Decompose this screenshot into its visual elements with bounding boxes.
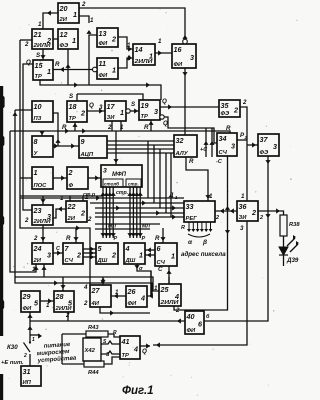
text +E pit [1,360,24,366]
wire y277 bus [15,264,159,291]
svg-text:9: 9 [81,137,85,146]
svg-text:АЦП: АЦП [80,152,94,158]
svg-text:б: б [206,313,210,320]
svg-text:R: R [144,124,149,131]
svg-text:У: У [34,151,39,157]
svg-text:СЧ: СЧ [219,150,228,156]
node label R under REG [181,225,185,231]
svg-text:8: 8 [34,137,38,146]
resistor R44 [62,357,120,367]
svg-text:R: R [189,158,194,165]
svg-text:К30: К30 [7,344,18,351]
svg-text:5: 5 [68,298,73,307]
wire MFP column line 1 [100,187,105,238]
node label ML left [108,224,116,230]
block 2 filter F [67,167,88,189]
svg-text:МЛ: МЛ [108,224,116,230]
svg-text:5: 5 [98,244,103,253]
svg-text:R: R [55,61,60,68]
svg-text:2: 2 [24,217,29,224]
node label 2 right of 33 [215,215,219,221]
svg-text:2: 2 [126,55,131,62]
resistor R43 [62,331,120,337]
node label P above 5 [114,236,118,242]
svg-text:2: 2 [76,250,81,259]
text power line3 [37,354,78,364]
text R43 [88,325,99,331]
svg-text:β: β [202,239,207,246]
svg-text:2: 2 [46,36,51,45]
wire 26 right input drop [150,271,152,296]
node label Q above 19 output [162,98,167,105]
wire REG output comb [187,222,213,232]
block 17 AND gate 3I [105,101,126,121]
wire 10 left input [15,109,32,111]
svg-text:МЛ: МЛ [142,224,150,230]
svg-text:1: 1 [127,42,131,49]
svg-text:11: 11 [99,59,106,68]
node label -C under 34 [216,159,223,165]
svg-text:26: 26 [127,287,137,296]
node label 1 at 14 input [127,42,131,49]
node label C between 24 and 7 [56,246,61,252]
svg-text:ДШ: ДШ [97,258,108,264]
wire ADC bus line 4 [107,152,174,154]
wire ML line 1 [95,223,160,225]
svg-text:2: 2 [107,124,112,131]
node label beta [202,239,207,246]
svg-text:R43: R43 [88,325,99,331]
block 19 trigger TR [139,100,160,120]
block 11 pulse shaper FI [97,58,118,79]
wire R38 to D39 [283,236,285,247]
svg-text:18: 18 [69,102,77,111]
wire 28 bottom stub [67,312,69,321]
svg-text:1: 1 [154,285,158,292]
svg-text:РЕГ: РЕГ [186,216,198,222]
wire 16 output down to 32 [182,68,187,135]
block 28 OR gate 2ILI [54,291,74,312]
node label 2 left of 21 [24,41,29,48]
node label Q right of 18 [89,102,94,109]
wire 13 to 14 input 1 [118,37,133,52]
wire R into 7 top [73,228,78,243]
wire R into 6 top [160,228,165,243]
wire mesh horizontal 3 [95,205,184,210]
node label 1 above 36 [241,193,245,200]
block 25 OR gate 2ILI [159,284,181,306]
node label Q left of 15 [26,59,31,66]
svg-text:4: 4 [174,292,179,301]
resistor R38 [280,215,300,236]
node label 2 right of 36 [259,215,263,221]
node label 3 under 36 [240,225,244,232]
wire 34 P2 output to right bus [237,139,247,141]
wire 6 to 4 line1 [145,247,155,252]
wire bus drop 3 to mesh [159,149,161,208]
svg-text:АЛУ: АЛУ [175,151,189,157]
svg-text:34: 34 [219,134,227,143]
svg-text:Q: Q [142,348,147,355]
node label 2 right of 35 [242,99,247,106]
wire 12 bottom down [65,49,70,85]
wire 36 bottom return to 41 Q [153,221,247,348]
svg-text:ИП: ИП [23,380,32,386]
wire 21 to 12 [53,38,58,40]
svg-text:3: 3 [190,53,194,62]
svg-text:Q: Q [163,120,168,127]
node label 6 right of 40 [206,313,210,320]
svg-text:1: 1 [120,124,124,131]
svg-text:1: 1 [85,194,89,201]
wire mesh horizontal 4 [95,210,184,215]
svg-text:1: 1 [72,36,76,45]
block 40 pulse shaper FI [185,311,204,334]
wire 11 to 14 input 2 [118,55,133,68]
svg-text:2: 2 [233,105,238,114]
svg-text:28: 28 [55,292,64,301]
svg-text:2И: 2И [67,216,76,222]
svg-text:12: 12 [60,30,68,39]
svg-text:23: 23 [33,206,42,215]
wire 19 Q output to 35 [160,104,219,109]
svg-text:ФИ: ФИ [23,306,33,312]
block 14 OR gate 2ILI [133,44,155,65]
wire ML line 2 [95,228,150,230]
svg-text:3: 3 [99,104,103,111]
svg-text:R: R [66,235,71,242]
svg-text:2: 2 [81,1,86,8]
wire minus C long vertical [174,156,230,310]
node label S above 15 [36,52,41,59]
node label K30 [7,344,18,351]
node label Q under 19 output [163,120,168,127]
svg-text:адрес пиксела: адрес пиксела [181,251,226,258]
svg-text:2: 2 [215,215,219,221]
wire 22 output to 23 [53,206,66,218]
wire left bus x15 [12,110,153,299]
text R44 [88,370,99,376]
svg-text:Фиг.1: Фиг.1 [122,385,154,397]
wire 7 to 5 line3 [83,254,96,259]
wire bus drop 5 to mesh [170,153,172,217]
svg-text:Р: Р [142,236,146,242]
block 22 AND gate 2I [66,201,87,222]
wire MFP row line 4 [138,187,143,238]
wire power arrow to text [30,333,42,338]
diode D39 [279,235,299,266]
svg-text:R: R [62,124,67,131]
block 18 trigger TR [67,101,87,122]
svg-text:1: 1 [112,65,116,74]
wire down into MFP top [113,131,118,165]
node label R above 34 [226,125,231,132]
wire mesh horizontal 1 [20,195,184,200]
svg-text:ПЗ: ПЗ [34,116,42,122]
wire 7 to 5 line2 [83,250,96,255]
svg-text:ФЭ: ФЭ [60,43,70,49]
svg-text:2: 2 [80,208,85,217]
block 12 delay FE [58,29,78,49]
svg-text:20: 20 [59,4,68,13]
block 5 decoder DSh [96,243,118,264]
text figure caption [122,385,154,397]
svg-text:1: 1 [38,21,42,28]
svg-text:СЧ: СЧ [157,260,166,266]
inverter circle on 16 top [183,39,188,44]
node label 4 left of 27 [83,284,88,291]
node label 2 right of 22 [87,216,92,223]
svg-text:2И: 2И [59,17,68,23]
node label S at 19 input [131,101,136,108]
wire 11 inverted out to 15 R [53,67,93,72]
block 21 OR gate 2ILI [32,29,53,49]
svg-text:29: 29 [22,292,31,301]
node label str [116,190,128,196]
node label P above 4 [142,236,146,242]
svg-text:3: 3 [47,250,51,259]
text address pixel [181,251,226,258]
brace under REG [188,234,210,237]
svg-text:2: 2 [244,135,248,140]
svg-text:19: 19 [141,101,149,110]
wire MFP column line 2 [104,187,109,238]
svg-text:2: 2 [33,235,38,242]
svg-text:R: R [226,125,231,132]
wire left bus x10 [10,131,39,272]
svg-text:27: 27 [91,286,101,295]
block X42 [83,338,101,361]
svg-text:1: 1 [120,108,124,117]
wire 41 Q output [140,343,150,348]
svg-text:41: 41 [121,337,130,346]
svg-text:ПОС: ПОС [34,183,48,189]
svg-text:ЗИ: ЗИ [239,215,248,221]
svg-text:+С: +С [200,147,208,153]
svg-text:16: 16 [174,45,183,54]
node label 2 above 24 [33,235,38,242]
svg-text:10: 10 [34,102,42,111]
wire plus C arrows into 34 [203,128,214,157]
svg-text:Х42: Х42 [84,348,96,354]
svg-text:R: R [155,235,160,242]
svg-text:1: 1 [139,250,143,259]
node label R right of 15 [55,61,60,68]
wire left bus x20 [20,40,90,285]
wire 14 output to 16 [155,50,172,55]
wire 25 output up to 6 C [166,266,171,284]
wire 10 right to bus [53,113,61,146]
svg-text:Q: Q [89,102,94,109]
block 35 delay FE [219,100,240,117]
svg-text:2: 2 [111,250,116,259]
wire 15 Q to left bus [23,64,33,210]
wire 22 top inputs [70,196,83,201]
block 26 pulse shaper FI [126,286,147,307]
svg-text:4И: 4И [91,301,100,307]
wire MFP row line 1 [127,187,132,238]
wire 1 to 2 [53,175,67,180]
wire bus drop 4 to mesh [165,153,167,213]
svg-text:24: 24 [33,244,42,253]
svg-text:R: R [181,225,185,231]
wire 6 to 4 line2 [145,252,155,257]
block 16 pulse shaper FI [172,44,196,68]
svg-text:1: 1 [47,67,51,76]
block 1 photosensor POS [32,167,53,189]
block 29 pulse shaper FI [21,291,40,312]
node label D1 [168,192,178,200]
svg-text:Ф: Ф [69,183,74,189]
wire left bus into 1 [20,177,32,179]
wire 20 left output loop to 21 top [43,10,58,29]
svg-text:4: 4 [83,284,88,291]
svg-text:S: S [131,101,136,108]
block 36 AND gate 3I [237,201,258,221]
wire 27 bottom output [100,307,150,316]
svg-text:стр.: стр. [128,182,139,187]
svg-text:1: 1 [115,289,119,296]
node label 1 left above 22 [60,195,64,202]
svg-text:S: S [36,52,41,59]
node label S lower 41 [106,352,110,358]
svg-text:1: 1 [32,266,36,273]
wire power line y321 to 40 [30,318,185,323]
svg-text:5: 5 [34,298,39,307]
svg-text:14: 14 [135,45,143,54]
svg-text:ТР: ТР [141,114,149,120]
svg-text:33: 33 [186,202,194,211]
svg-text:15: 15 [35,61,44,70]
wire 36 to 33 [215,208,237,213]
node label R under 32 [189,158,194,165]
svg-text:4: 4 [133,344,138,353]
wire bus drop 2 to mesh [153,145,155,203]
wire mesh horizontal 5 [95,214,184,219]
node label Q at 41 [142,348,147,355]
svg-text:35: 35 [221,101,230,110]
wire 4 bottom output [134,264,151,296]
svg-text:1: 1 [46,302,50,309]
svg-text:R38: R38 [289,222,300,228]
block 23 OR gate 2ILI [32,205,53,225]
svg-text:МФП: МФП [112,172,127,178]
wire into 27 top [100,277,105,285]
svg-text:7: 7 [65,244,70,253]
inverter circle on 19 lower output [160,115,164,119]
wire ADC bus line 1 [107,140,174,142]
wire 26 to 27 [111,293,126,298]
svg-text:α: α [188,239,193,246]
svg-text:3: 3 [103,168,107,175]
text power line1 [44,342,72,350]
wire 29 bottom input [27,312,32,321]
svg-text:СЧ: СЧ [65,258,74,264]
node label 1 right above 22 [85,194,89,201]
node label sigma under 4 [139,266,143,272]
svg-text:2: 2 [80,108,85,117]
wire 19 inverted output loop [164,117,217,143]
svg-text:ТР: ТР [122,353,130,359]
node label 1 between 29 28 [46,302,50,309]
node label 1 at switch [32,337,35,343]
node label 1 above 21 [38,21,42,28]
svg-text:2: 2 [83,300,88,307]
node label 1 right of 20 [90,17,94,24]
block 32 ALU [174,135,197,157]
wire into 23 top [40,196,45,205]
svg-text:37: 37 [260,135,269,144]
svg-text:ФИ: ФИ [174,62,184,68]
inverter circle on 17 output [126,109,130,113]
wire 21 bottom S into 15 [40,49,45,60]
svg-text:ТР: ТР [69,116,77,122]
svg-text:1: 1 [73,10,77,19]
svg-text:Д39: Д39 [286,257,299,264]
node label 2 left under 27 [83,300,88,307]
node label +C [200,147,208,153]
wire horizontal bus y94 [77,94,143,100]
node label R above 6 [155,235,160,242]
node label 1 above 33 [209,193,213,200]
svg-text:2: 2 [111,34,116,43]
wire 18 S input [76,94,78,101]
wire 29 to 28 [40,298,54,303]
svg-text:ТР: ТР [35,74,43,80]
wire R into 18 bottom [72,122,77,131]
svg-text:1: 1 [158,38,162,45]
wire MFP row line 3 [134,187,139,238]
block 31 power supply IP [21,366,41,386]
block 41 trigger TR [120,336,140,359]
block 13 pulse shaper FI [97,28,118,47]
svg-text:ФИ: ФИ [128,301,138,307]
svg-text:13: 13 [99,29,107,38]
text power line2 [37,349,71,357]
svg-text:4: 4 [125,244,130,253]
inverter circle on 11 left [93,67,98,72]
svg-text:3: 3 [240,225,244,232]
block 33 register REG [184,201,215,222]
wire bus drop 1 to mesh [147,141,149,198]
wire 36 right to R38 junction [258,208,284,215]
svg-text:Р: Р [114,236,118,242]
svg-text:36: 36 [239,202,248,211]
block 27 AND gate 4I [90,285,111,307]
svg-text:31: 31 [23,367,31,376]
node label 2 left of 23 [24,217,29,224]
svg-text:2: 2 [87,216,92,223]
svg-text:1: 1 [241,193,245,200]
svg-text:32: 32 [176,136,184,145]
svg-text:1: 1 [34,168,38,177]
svg-text:2: 2 [23,353,27,359]
svg-text:2И: 2И [33,258,42,264]
node label ML right [142,224,150,230]
svg-text:6: 6 [157,244,162,253]
wire 2 to 3 MFP [88,175,101,180]
svg-text:2: 2 [175,307,180,314]
svg-text:R: R [113,330,117,336]
svg-text:6: 6 [198,319,203,328]
svg-text:22: 22 [67,202,76,211]
node label 2 under 28 [65,312,70,319]
wire X42 to 41 lower [101,351,120,354]
node label 3 above 27 [101,278,105,285]
wire X42 to 41 upper [101,341,120,344]
block 10 start unit PZ [32,101,53,122]
wire 37 output down to 40 right [204,156,271,321]
